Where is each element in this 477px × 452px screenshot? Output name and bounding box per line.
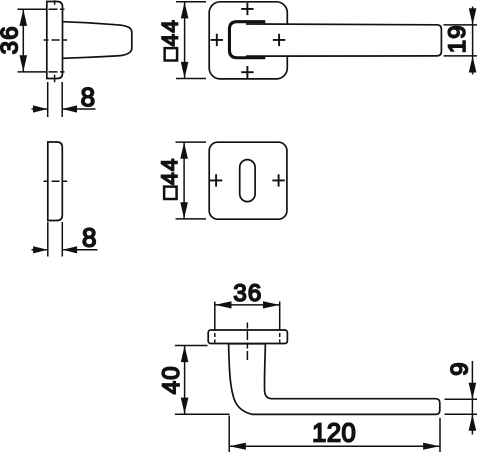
svg-text:□44: □44 [157,157,182,199]
svg-text:□44: □44 [158,19,183,61]
svg-text:8: 8 [82,222,96,252]
svg-text:36: 36 [233,280,262,307]
svg-text:40: 40 [158,365,185,394]
svg-text:36: 36 [0,25,24,54]
svg-text:8: 8 [81,82,95,112]
svg-text:9: 9 [447,361,474,376]
svg-text:19: 19 [444,24,471,53]
svg-text:120: 120 [312,420,356,448]
